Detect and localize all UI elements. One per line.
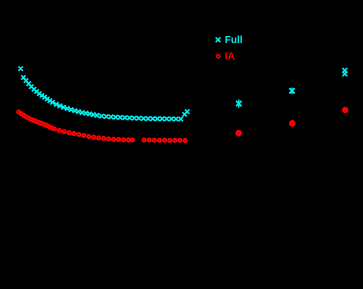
svg-text:IA: IA — [225, 52, 235, 63]
svg-text:Full: Full — [225, 35, 243, 46]
